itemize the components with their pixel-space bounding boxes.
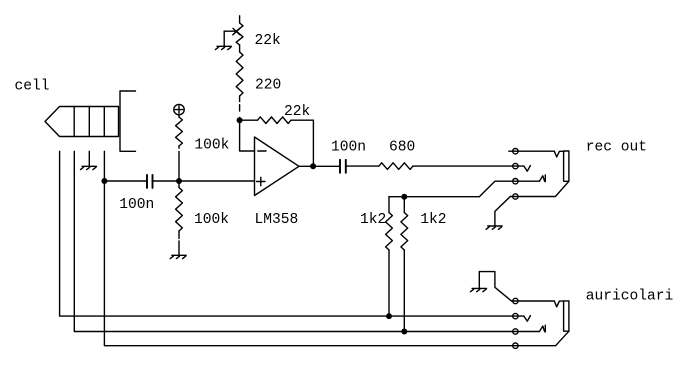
wire op-amp output — [299, 165, 340, 167]
power supply + terminal — [174, 104, 184, 117]
terminal rec out pin 1 — [513, 149, 518, 154]
potentiometer 22k body — [236, 23, 243, 45]
node output junction — [310, 163, 316, 169]
svg-text:LM358: LM358 — [255, 212, 299, 228]
pot wiper arrow — [224, 28, 240, 46]
terminal auricolari pin 4 — [513, 343, 518, 348]
wire pot to R3 — [239, 45, 241, 52]
cell plug connector — [45, 107, 119, 137]
cell socket bracket — [120, 91, 136, 151]
resistor R5 680 — [379, 163, 413, 170]
resistor R2 100k bias lower — [176, 183, 183, 255]
wire mic to C1 — [104, 180, 146, 182]
wire auricolari pin 1 to ground — [479, 272, 511, 301]
wire tip lead to auricolari left channel rail — [60, 151, 524, 316]
ground pot wiper — [217, 45, 231, 47]
terminal auricolari pin 3 — [513, 329, 518, 334]
wire rail rise to rec out pin 3 — [479, 181, 539, 197]
wire node A to op-amp inverting input — [240, 118, 255, 152]
auricolari jack tip spring V — [554, 301, 563, 307]
op-amp U1 LM358 — [255, 137, 300, 196]
wire C2 to R5 — [346, 165, 379, 167]
node mic input junction — [101, 178, 107, 184]
ground auricolari pin 1 — [472, 287, 486, 289]
svg-text:22k: 22k — [255, 33, 282, 49]
node bias junction — [176, 178, 182, 184]
svg-text:220: 220 — [255, 78, 281, 94]
resistor R1 100k bias upper — [176, 117, 183, 178]
potentiometer 22k top stub — [239, 16, 241, 23]
rec out jack body — [564, 151, 569, 181]
wire ring1 lead to auricolari right channel rail — [74, 151, 539, 331]
wire R5 to rec out pin 2 — [413, 165, 524, 167]
svg-text:100n: 100n — [331, 140, 366, 156]
terminal auricolari pin 1 — [513, 298, 518, 303]
svg-text:rec out: rec out — [586, 140, 647, 156]
node 1k2 junction — [401, 194, 407, 200]
svg-text:cell: cell — [15, 79, 50, 95]
rec out jack pin 1 stub — [509, 150, 555, 152]
svg-text:100k: 100k — [194, 138, 229, 154]
wire ring2 lead to ground — [88, 151, 90, 166]
ground rec out — [488, 225, 502, 227]
svg-text:auricolari: auricolari — [586, 289, 674, 305]
wire rec out sleeve to ground — [495, 197, 510, 227]
capacitor C1 100n — [147, 175, 153, 188]
switch contact on auricolari pin 3 — [539, 326, 544, 331]
wire sleeve lead mic signal rail — [104, 151, 555, 345]
switch contact on rec out pin 3 — [539, 176, 544, 181]
resistor R4 22k feedback — [240, 117, 314, 166]
wire auricolari pin 1 — [511, 300, 554, 302]
svg-text:1k2: 1k2 — [420, 212, 446, 228]
contact spring v on auricolari pin 2 — [524, 316, 531, 322]
ground bias divider — [172, 254, 186, 256]
svg-text:680: 680 — [389, 140, 415, 156]
resistor R7 1k2 right — [401, 197, 408, 332]
resistor R6 1k2 left — [386, 197, 393, 316]
terminal auricolari pin 2 — [513, 313, 518, 318]
wire C1 to bias node and op-amp + input — [153, 180, 255, 182]
svg-text:22k: 22k — [284, 104, 311, 120]
svg-text:100k: 100k — [194, 212, 229, 228]
auricolari jack sleeve wire — [556, 331, 569, 346]
node A inverting input junction — [237, 117, 243, 123]
ground cell — [82, 165, 96, 167]
terminal rec out pin 4 — [513, 194, 518, 199]
resistor R3 220 — [236, 52, 243, 111]
rec out jack tip spring V — [554, 151, 563, 157]
terminal rec out pin 2 — [513, 163, 518, 168]
rec out jack sleeve wire — [510, 181, 569, 196]
contact spring v on rec out pin 2 — [524, 166, 531, 172]
wire divider top rail — [389, 196, 479, 198]
terminal rec out pin 3 — [513, 179, 518, 184]
svg-text:1k2: 1k2 — [360, 212, 386, 228]
auricolari jack body — [564, 301, 569, 331]
capacitor C2 100n output — [340, 160, 346, 173]
svg-text:100n: 100n — [119, 197, 154, 213]
